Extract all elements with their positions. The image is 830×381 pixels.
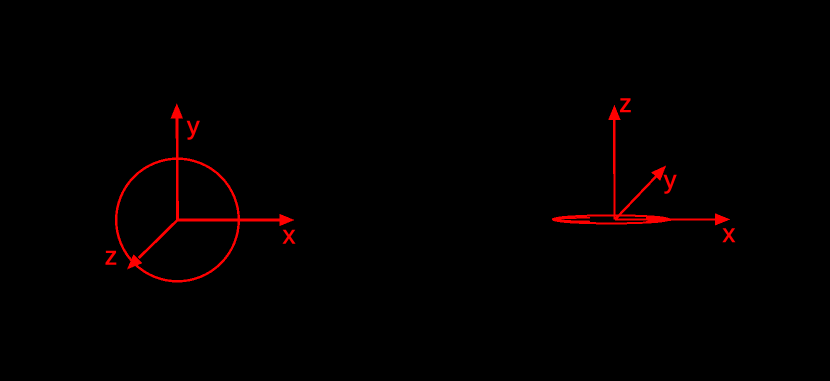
svg-text:z: z [105,242,118,270]
svg-text:x: x [283,222,296,250]
svg-text:x: x [723,220,736,248]
svg-text:y: y [664,167,677,195]
svg-text:z: z [619,90,632,118]
svg-text:y: y [187,112,200,140]
